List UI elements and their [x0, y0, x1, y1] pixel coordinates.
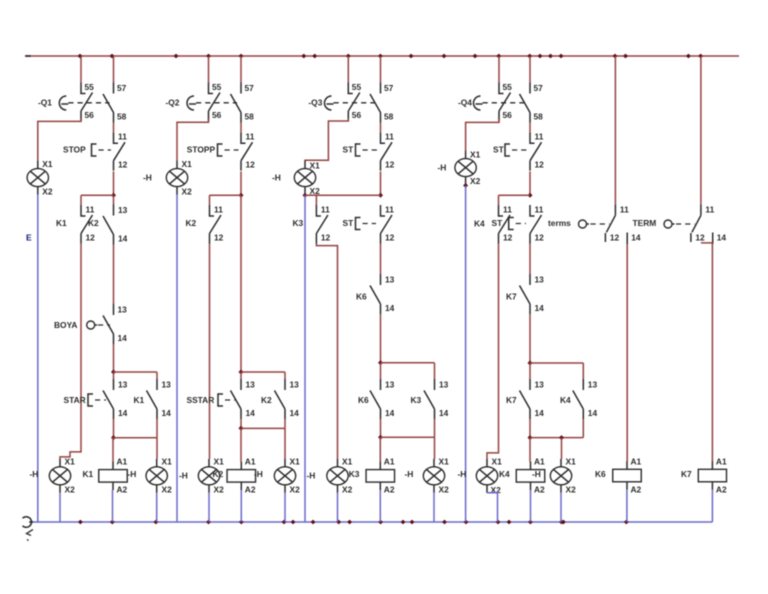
svg-text:K2: K2: [186, 218, 197, 228]
svg-text:X2: X2: [342, 485, 353, 495]
junction: [303, 193, 308, 198]
bus junctions (bottom): [78, 520, 629, 525]
contact -Q2 NO 57/58: [231, 83, 255, 123]
wire K2seal-14 down: [284, 419, 286, 428]
wire bus to Q4 55: [498, 56, 500, 83]
svg-text:X1: X1: [65, 457, 76, 467]
svg-text:-Q4: -Q4: [458, 97, 472, 107]
wire Q3-56 to lamp H7: [305, 119, 348, 161]
svg-text:56: 56: [503, 110, 513, 120]
wire ST-12 to K7 13: [529, 244, 531, 275]
wire STOP-12 down: [113, 172, 115, 196]
actuator -Q1: [38, 96, 110, 110]
wire bus to Q3 57: [380, 56, 382, 83]
svg-text:14: 14: [162, 408, 172, 418]
wire SSTAR-14 down: [240, 419, 242, 428]
pushbutton ST NC 11/12: [381, 132, 395, 171]
svg-text:terms: terms: [548, 218, 571, 228]
wire K3seal-14 down: [434, 419, 436, 437]
contact K1 NO 13/14 seal-in: [147, 379, 172, 419]
wire K7pair-14 down: [529, 419, 531, 438]
top bus left tip: [25, 55, 31, 57]
svg-text:STAR: STAR: [64, 395, 86, 405]
indicator lamp -H1: [27, 159, 53, 196]
svg-text:58: 58: [534, 112, 544, 122]
pushbutton ST NC 11/12: [530, 132, 544, 171]
wire lamp H7 bottom: [304, 193, 306, 196]
wire bus to TERM contact: [700, 56, 702, 204]
svg-text:56: 56: [352, 110, 362, 120]
pushbutton STOPP NC 11/12: [241, 132, 255, 171]
wire 58 to 11: [240, 123, 242, 133]
svg-text:X2: X2: [214, 485, 225, 495]
svg-text:A1: A1: [245, 457, 256, 467]
svg-text:11: 11: [385, 205, 394, 215]
svg-text:55: 55: [85, 82, 95, 92]
svg-text:13: 13: [162, 380, 172, 390]
svg-text:12: 12: [535, 160, 545, 170]
wire K1seal-14 down: [156, 419, 158, 438]
junction: [239, 193, 244, 198]
indicator lamp -H6: [274, 457, 300, 495]
wire bus to Q4 57: [529, 56, 531, 83]
wire coil K6 to N bus: [626, 490, 628, 522]
svg-text:X1: X1: [290, 457, 301, 467]
wire 58 to 11: [529, 123, 531, 133]
wire to K6 pair 13: [380, 363, 382, 379]
wire junction to K4 seal branch: [530, 362, 583, 364]
svg-text:12: 12: [246, 160, 256, 170]
svg-text:K2: K2: [88, 218, 99, 228]
wire K7-14 down: [529, 314, 531, 363]
svg-text:12: 12: [610, 233, 620, 243]
wire K2-12 down to lamp H5: [209, 244, 211, 459]
svg-text:TERM: TERM: [633, 218, 657, 228]
svg-text:55: 55: [503, 82, 513, 92]
wire to lamp H9: [434, 437, 436, 459]
svg-text:K3: K3: [411, 395, 422, 405]
svg-text:STOP: STOP: [63, 144, 86, 154]
wire lamp H6 to N bus: [284, 493, 286, 522]
svg-text:K1: K1: [134, 395, 145, 405]
svg-text:K3: K3: [293, 218, 304, 228]
wire lamp H10 to N bus: [465, 186, 467, 523]
svg-text:12: 12: [385, 233, 395, 243]
contact K7 NO 13/14: [520, 274, 545, 314]
indicator lamp -H11: [476, 457, 502, 496]
junction: [528, 193, 533, 198]
svg-text:11: 11: [705, 205, 714, 215]
wire K4-12 down to lamp H11: [487, 244, 499, 459]
svg-text:13: 13: [588, 380, 598, 390]
actuator ST: [493, 144, 528, 156]
svg-text:13: 13: [246, 380, 256, 390]
indicator lamp -H4: [166, 159, 192, 196]
svg-text:A1: A1: [384, 457, 395, 467]
indicator lamp -H10: [455, 150, 481, 187]
svg-text:A2: A2: [716, 485, 727, 495]
svg-text:K6: K6: [356, 292, 367, 302]
wire junction horizontal: [530, 437, 583, 439]
svg-text:57: 57: [534, 83, 544, 93]
svg-text:K4: K4: [560, 395, 571, 405]
svg-text:11: 11: [385, 132, 394, 142]
wire junction to K1 branch: [81, 194, 114, 196]
wire lamp H7 to N bus: [304, 195, 306, 522]
svg-text:K1: K1: [83, 469, 94, 479]
wire junction horizontal: [305, 194, 381, 196]
actuator STOP: [63, 144, 111, 156]
svg-text:12: 12: [214, 233, 224, 243]
junction: [559, 435, 564, 440]
actuator ST: [343, 144, 379, 156]
svg-text:13: 13: [385, 380, 395, 390]
svg-text:A1: A1: [631, 457, 642, 467]
svg-text:ST: ST: [343, 218, 355, 228]
svg-text:A1: A1: [117, 457, 128, 467]
wire to K3 seal 13: [434, 363, 436, 379]
junction: [239, 370, 244, 375]
svg-text:14: 14: [118, 408, 128, 418]
svg-text:X1: X1: [162, 457, 173, 467]
svg-text:58: 58: [117, 112, 127, 122]
wire junction to K1 seal branch: [114, 371, 158, 373]
svg-text:X1: X1: [492, 457, 503, 467]
svg-text:SSTAR: SSTAR: [187, 395, 215, 405]
bus left-end connector: [23, 517, 34, 528]
wire K3-12 jog down to lamp H8: [316, 244, 337, 459]
actuator STOPP: [187, 144, 239, 156]
svg-text:-Q3: -Q3: [308, 97, 322, 107]
svg-text:K6: K6: [595, 469, 606, 479]
junction: [111, 370, 116, 375]
wire to K4 seal 13: [582, 363, 584, 379]
contact -Q1 NC 55/56: [81, 82, 94, 121]
wire junction to coil K3: [379, 437, 381, 462]
wire to K3 11: [315, 195, 317, 205]
svg-text:A2: A2: [534, 485, 545, 495]
svg-text:K2: K2: [213, 469, 224, 479]
svg-text:12: 12: [385, 160, 395, 170]
wire coil K7 to N bus: [711, 490, 713, 522]
svg-text:57: 57: [384, 83, 394, 93]
svg-text:X2: X2: [290, 485, 301, 495]
wire lamp H12 to N bus: [560, 493, 562, 522]
contact K2 NO 13/14 seal-in: [275, 379, 300, 419]
actuator -Q4: [458, 96, 526, 110]
svg-text:X1: X1: [214, 457, 225, 467]
coil K2: [227, 457, 256, 495]
wire lamp H5 to N bus: [208, 493, 210, 522]
svg-text:K2: K2: [261, 395, 272, 405]
actuator -Q3: [308, 96, 376, 110]
svg-text:12: 12: [321, 233, 331, 243]
indicator lamp -H7: [294, 161, 320, 197]
svg-text:55: 55: [212, 82, 222, 92]
wire bus to Q2 57: [240, 56, 242, 83]
svg-text:A2: A2: [384, 485, 395, 495]
contact -Q4 NC 55/56: [499, 82, 512, 121]
svg-text:56: 56: [85, 110, 95, 120]
wire junction to K2 branch: [210, 194, 242, 196]
contact K7 NO 13/14 pair: [520, 379, 545, 419]
wire Q4-56 to lamp H10: [466, 119, 499, 151]
svg-text:X2: X2: [42, 187, 53, 197]
svg-text:A2: A2: [631, 485, 642, 495]
wire K6pair-14 down: [380, 419, 382, 437]
svg-text:STOPP: STOPP: [187, 144, 216, 154]
wire junction horizontal: [241, 427, 285, 429]
contact -Q3 NO 57/58: [370, 83, 394, 123]
svg-text:-H: -H: [30, 469, 39, 479]
coil K3: [366, 457, 395, 495]
svg-text:11: 11: [86, 205, 95, 215]
wire junction to K3 seal branch: [381, 362, 435, 364]
svg-text:X1: X1: [310, 161, 321, 171]
wire TERM-14 jog: [701, 243, 713, 462]
svg-text:56: 56: [212, 110, 222, 120]
svg-text:12: 12: [535, 233, 545, 243]
junction: [239, 426, 244, 431]
wire lamp H10 bottom: [465, 185, 467, 186]
indicator lamp -H3: [146, 457, 172, 495]
svg-text:14: 14: [246, 408, 256, 418]
coil K6: [613, 457, 642, 495]
contact -Q4 NO 57/58: [520, 83, 544, 123]
contact K6 NO 13/14 pair: [370, 379, 395, 419]
bottom neutral bus N: [29, 521, 712, 523]
svg-text:13: 13: [439, 380, 449, 390]
wire K1-12 down to lamp H2: [60, 244, 81, 459]
svg-text:14: 14: [717, 233, 727, 243]
svg-text:-Q2: -Q2: [166, 97, 180, 107]
indicator lamp -H12: [550, 457, 576, 495]
contact K3 NO 13/14 seal-in: [424, 379, 449, 419]
svg-text:X2: X2: [470, 176, 481, 186]
wire lamp H9 to N bus: [433, 493, 435, 522]
wire lamp H3 to N bus: [156, 493, 158, 522]
wire K6-14 down: [380, 314, 382, 363]
svg-text:K4: K4: [499, 469, 510, 479]
svg-text:-H: -H: [272, 173, 281, 183]
junction: [378, 193, 383, 198]
svg-text:X2: X2: [182, 187, 193, 197]
junction: [378, 435, 383, 440]
pushbutton SSTAR NO 13/14: [231, 379, 256, 419]
svg-text:A1: A1: [716, 457, 727, 467]
svg-text:-Q1: -Q1: [38, 97, 52, 107]
wire bus to Q3 55: [347, 56, 349, 83]
svg-text:58: 58: [245, 112, 255, 122]
wire ST-12 down: [380, 172, 382, 196]
svg-text:X1: X1: [470, 150, 481, 160]
indicator lamp -H5: [198, 457, 224, 495]
svg-text:-H: -H: [438, 163, 447, 173]
svg-text:K7: K7: [506, 292, 517, 302]
contact -Q1 NO 57/58: [103, 83, 127, 123]
junction: [463, 183, 468, 188]
wire junction to K4 branch: [499, 194, 531, 196]
contact K4 NC 11/12: [499, 205, 513, 244]
svg-text:12: 12: [695, 233, 705, 243]
wire to K2 seal 13: [284, 372, 286, 379]
svg-text:-H: -H: [532, 469, 541, 479]
svg-text:14: 14: [385, 303, 395, 313]
svg-text:K3: K3: [349, 469, 360, 479]
contact -Q2 NC 55/56: [209, 82, 222, 121]
wire junction to coil K1: [112, 438, 114, 462]
pushbutton STAR NO 13/14: [103, 379, 128, 419]
wire STAR-14 down: [113, 419, 115, 438]
svg-text:11: 11: [118, 132, 127, 142]
wire bus to Q1 55: [80, 56, 82, 83]
junction: [528, 435, 533, 440]
wire bus to terms contact: [614, 56, 616, 204]
wire ST-12 to K6 13: [380, 244, 382, 275]
wire to SSTAR 13: [240, 372, 242, 379]
svg-text:13: 13: [535, 275, 545, 285]
svg-text:14: 14: [118, 333, 128, 343]
wire ST-12 down: [529, 172, 531, 196]
svg-text:13: 13: [118, 305, 128, 315]
wire K2-14 to BOYA 13: [113, 245, 115, 305]
svg-text:12: 12: [118, 160, 128, 170]
svg-text:X1: X1: [182, 159, 193, 169]
wire terms-14 to coil K6: [626, 244, 628, 462]
contact K6 NO 13/14: [370, 274, 395, 314]
svg-text:K1: K1: [56, 218, 67, 228]
svg-text:14: 14: [535, 303, 545, 313]
svg-text:X2: X2: [491, 485, 502, 495]
svg-text:ST: ST: [493, 144, 505, 154]
svg-text:-H: -H: [307, 471, 316, 481]
wire to K2 11: [209, 195, 211, 205]
contact K2 NO 13/14: [103, 205, 128, 245]
svg-text:-H: -H: [179, 471, 188, 481]
wire coil K1 to N bus: [112, 490, 114, 522]
svg-text:11: 11: [503, 205, 512, 215]
svg-text:11: 11: [535, 132, 544, 142]
bus junctions (top): [78, 54, 703, 59]
wire lamp H11 to N bus: [487, 493, 498, 522]
wire coil K4 to N bus: [530, 490, 532, 522]
wire to lamp H6: [284, 428, 286, 459]
svg-text:55: 55: [352, 82, 362, 92]
svg-text:14: 14: [290, 408, 300, 418]
coil K4: [516, 457, 545, 495]
svg-text:57: 57: [245, 83, 255, 93]
wire junction to lamp H3 drop: [114, 438, 158, 459]
wire bus to Q2 55: [208, 56, 210, 83]
wire junction horizontal: [381, 436, 435, 438]
wire main branch down: [240, 195, 242, 372]
svg-text:ST: ST: [343, 144, 355, 154]
wire bus to Q1 57: [113, 56, 115, 83]
wire lamp H2 to N bus: [59, 493, 61, 522]
svg-text:57: 57: [117, 83, 127, 93]
svg-text:14: 14: [535, 408, 545, 418]
svg-text:E: E: [26, 233, 32, 243]
wire to STAR 13: [113, 372, 115, 379]
wire lamp H4 to N bus: [176, 195, 178, 523]
junction: [378, 360, 383, 365]
svg-text:X2: X2: [566, 485, 577, 495]
wire lamp H1 to N bus: [37, 195, 39, 523]
actuator ST mid right: [492, 218, 527, 230]
svg-text:K7: K7: [681, 469, 692, 479]
svg-text:-H: -H: [254, 469, 263, 479]
actuator STAR: [64, 394, 107, 406]
svg-text:X2: X2: [310, 186, 321, 196]
svg-text:13: 13: [535, 380, 545, 390]
svg-text:A1: A1: [534, 457, 545, 467]
svg-text:BOYA: BOYA: [54, 320, 77, 330]
junction: [528, 361, 533, 366]
svg-text:X2: X2: [439, 485, 450, 495]
svg-text:X1: X1: [439, 457, 450, 467]
indicator lamp -H9: [423, 457, 449, 495]
wire STOPP-12 down: [240, 172, 242, 196]
svg-text:K6: K6: [358, 395, 369, 405]
svg-text:A2: A2: [117, 485, 128, 495]
wire to K1 11: [80, 195, 82, 205]
svg-text:13: 13: [385, 275, 395, 285]
contact -Q3 NC 55/56: [348, 82, 361, 121]
top supply bus L1: [25, 55, 739, 57]
wire junction to K2 13: [113, 195, 115, 204]
wire K4seal-14 down: [582, 419, 584, 438]
svg-text:13: 13: [290, 380, 300, 390]
wire to K4 11: [498, 195, 500, 205]
contact K1 NC 11/12: [81, 205, 95, 244]
wire junction to coil K2: [240, 428, 242, 462]
junction: [111, 193, 116, 198]
thermostat contact TERM 11/12/14: [664, 204, 726, 244]
wire junction to coil K4: [529, 438, 531, 462]
actuator ST mid: [343, 218, 377, 230]
svg-text:14: 14: [631, 233, 641, 243]
wire to K7 pair 13: [529, 363, 531, 379]
svg-text:11: 11: [620, 205, 629, 215]
svg-text:14: 14: [385, 408, 395, 418]
pushbutton ST NC 11/12 (mid right): [530, 205, 544, 244]
coil K7: [698, 457, 727, 495]
wire BOYA-14 down: [113, 344, 115, 372]
actuator -Q2: [166, 96, 238, 110]
thermostat contact terms 11/12/14: [579, 204, 641, 244]
wire coil K2 to N bus: [240, 490, 242, 522]
svg-text:58: 58: [384, 112, 394, 122]
wire 58 to 11: [380, 123, 382, 133]
indicator lamp -H2: [49, 457, 75, 495]
svg-text:-H: -H: [143, 173, 152, 183]
junction: [111, 435, 116, 440]
wire to K1 seal 13: [156, 372, 158, 379]
svg-text:14: 14: [118, 234, 128, 244]
svg-text:12: 12: [503, 233, 513, 243]
float switch BOYA NO 13/14: [103, 304, 127, 344]
contact K2 NC 11/12: [210, 205, 224, 244]
wire 58 to 11: [113, 123, 115, 133]
svg-text:X1: X1: [42, 159, 53, 169]
wire junction to K2 seal branch: [241, 371, 285, 373]
svg-text:12: 12: [86, 233, 96, 243]
wire Q2-56 to lamp H4: [177, 119, 209, 161]
svg-text:-H: -H: [458, 469, 467, 479]
svg-text:11: 11: [321, 205, 330, 215]
contact K3 NC 11/12: [316, 205, 330, 244]
svg-text:X2: X2: [65, 485, 76, 495]
